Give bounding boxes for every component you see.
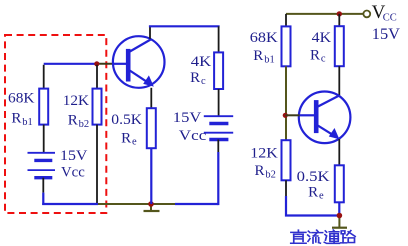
svg-text:12K: 12K — [63, 93, 89, 109]
svg-text:c: c — [201, 76, 206, 87]
svg-text:4K: 4K — [312, 30, 332, 46]
svg-text:0.5K: 0.5K — [111, 112, 142, 128]
svg-text:e: e — [319, 191, 324, 202]
svg-text:R: R — [68, 113, 78, 129]
svg-text:c: c — [321, 54, 326, 65]
svg-text:b1: b1 — [22, 117, 33, 128]
svg-text:15V: 15V — [372, 26, 401, 43]
svg-text:R: R — [190, 70, 200, 86]
svg-text:R: R — [11, 110, 21, 126]
svg-text:R: R — [255, 163, 265, 179]
svg-text:b2: b2 — [265, 170, 276, 181]
svg-text:4K: 4K — [191, 54, 212, 70]
svg-text:R: R — [253, 48, 263, 64]
svg-text:CC: CC — [383, 12, 397, 23]
svg-text:b1: b1 — [264, 54, 275, 65]
svg-text:0.5K: 0.5K — [297, 169, 330, 185]
svg-text:R: R — [121, 130, 131, 146]
svg-text:Vcc: Vcc — [61, 165, 85, 181]
svg-text:b2: b2 — [79, 119, 90, 130]
svg-text:15V: 15V — [60, 148, 88, 164]
svg-text:R: R — [310, 48, 320, 64]
svg-text:Vcc: Vcc — [179, 128, 207, 144]
svg-text:12K: 12K — [250, 146, 278, 162]
svg-text:R: R — [308, 185, 318, 201]
svg-text:68K: 68K — [8, 91, 35, 107]
svg-text:15V: 15V — [173, 110, 202, 126]
svg-text:e: e — [132, 137, 137, 148]
svg-text:68K: 68K — [250, 30, 278, 46]
